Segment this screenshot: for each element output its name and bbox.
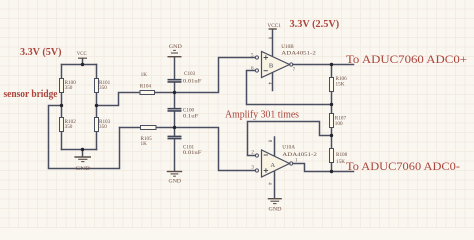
svg-text:15K: 15K (336, 159, 345, 165)
svg-text:C100: C100 (183, 107, 195, 113)
svg-text:3.3V (5V): 3.3V (5V) (20, 47, 62, 58)
svg-text:U10B: U10B (281, 44, 294, 50)
svg-text:GND: GND (169, 179, 182, 185)
svg-text:1K: 1K (141, 72, 148, 78)
svg-text:GND: GND (269, 207, 282, 213)
svg-text:ADA4051-2: ADA4051-2 (281, 51, 316, 57)
svg-text:A: A (270, 162, 275, 169)
svg-text:To ADUC7060 ADC0+: To ADUC7060 ADC0+ (346, 54, 467, 66)
svg-text:VCC1: VCC1 (267, 23, 281, 29)
svg-text:0.01uF: 0.01uF (183, 79, 202, 85)
svg-text:350: 350 (65, 85, 73, 91)
svg-text:To ADUC7060 ADC0-: To ADUC7060 ADC0- (346, 161, 460, 173)
svg-text:R104: R104 (140, 84, 152, 90)
svg-text:sensor bridge: sensor bridge (4, 89, 59, 100)
svg-text:ADA4051-2: ADA4051-2 (282, 152, 317, 158)
svg-text:GND: GND (169, 44, 182, 50)
svg-text:GND: GND (75, 166, 90, 172)
svg-text:350: 350 (65, 124, 73, 130)
svg-text:VCC: VCC (77, 52, 87, 57)
svg-text:Amplify 301 times: Amplify 301 times (225, 109, 299, 121)
svg-text:1K: 1K (141, 141, 148, 147)
svg-text:U10A: U10A (282, 145, 295, 151)
svg-text:B: B (269, 63, 274, 70)
svg-text:15K: 15K (336, 81, 345, 87)
svg-text:3.3V (2.5V): 3.3V (2.5V) (290, 19, 340, 30)
svg-text:0.01uF: 0.01uF (183, 150, 202, 156)
svg-text:350: 350 (99, 85, 107, 91)
svg-text:C103: C103 (184, 71, 196, 77)
svg-text:0.1uF: 0.1uF (183, 114, 199, 120)
svg-text:350: 350 (99, 124, 107, 130)
svg-text:R108: R108 (336, 152, 348, 158)
svg-text:100: 100 (335, 121, 343, 127)
